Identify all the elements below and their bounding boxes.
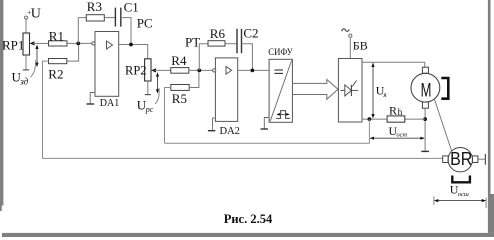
svg-text:DA2: DA2 — [220, 126, 240, 137]
node input DA2 — [197, 69, 201, 73]
svg-text:СИФУ: СИФУ — [268, 47, 293, 57]
svg-text:RP1: RP1 — [2, 37, 24, 52]
wire R2 right to input node — [67, 45, 79, 61]
block BV thyristor converter — [338, 59, 362, 123]
wire R5 left down to current feedback bus — [165, 88, 171, 144]
svg-text:C1: C1 — [124, 0, 139, 14]
svg-text:PC: PC — [137, 15, 153, 30]
ground SIFU — [261, 118, 270, 130]
wire R6 to C2 — [225, 43, 237, 45]
speed feedback bus BR to R2 — [43, 157, 443, 159]
svg-text:Рис. 2.54: Рис. 2.54 — [224, 211, 273, 226]
node Rh left — [368, 117, 372, 121]
wire BV to motor top — [362, 62, 425, 67]
op-amp DA1 — [92, 32, 119, 109]
wire R4 to DA2 input — [189, 69, 213, 71]
Uzd voltage arrow — [35, 45, 38, 67]
node Rh right — [423, 117, 427, 121]
block SIFU — [268, 47, 293, 122]
svg-text:БВ: БВ — [353, 38, 368, 52]
Uzd label — [12, 60, 36, 86]
RP2 wiper arrow — [151, 68, 156, 72]
RP1 open terminal bar — [23, 69, 29, 71]
potentiometer RP1 — [2, 33, 30, 55]
motor M — [411, 67, 440, 108]
BR field bracket — [452, 176, 470, 183]
svg-text:C2: C2 — [243, 25, 258, 40]
wire RP1 wiper to R1 — [33, 42, 49, 44]
feedback wire node to R6 — [199, 44, 208, 71]
ground DA1 — [86, 93, 95, 105]
thyristor symbol — [340, 81, 358, 97]
svg-text:R3: R3 — [87, 0, 102, 14]
resistor R5 — [171, 85, 189, 107]
svg-text:R: R — [389, 103, 397, 117]
wire RP2 wiper to R4 — [155, 69, 171, 71]
RP1 wiper arrow — [30, 41, 35, 45]
svg-text:осш: осш — [458, 191, 469, 198]
RP1 bottom lead — [25, 55, 27, 70]
pulse symbol in SIFU — [276, 111, 290, 119]
svg-text:U: U — [31, 7, 41, 22]
node DA1 output — [129, 43, 133, 47]
potentiometer RP2 — [125, 59, 151, 81]
left page margin bar — [0, 0, 3, 206]
wire motor bottom to Rh node — [424, 108, 426, 151]
ground DA2 — [208, 118, 216, 131]
field winding bracket — [441, 78, 448, 99]
Uosh dimension arrow — [434, 196, 486, 208]
wire AC to BV — [349, 37, 351, 58]
svg-text:BR: BR — [450, 149, 472, 169]
open terminal bar below node — [421, 150, 429, 152]
RP2 open terminal bar — [145, 94, 151, 96]
Uost label — [389, 124, 408, 139]
current feedback wire to R5 — [165, 119, 370, 143]
Uya label — [376, 84, 387, 99]
capacitor C1 — [115, 0, 138, 27]
svg-text:зд: зд — [19, 76, 28, 86]
wire R5 right to input node — [189, 72, 199, 87]
wire Rh to BV — [362, 118, 387, 120]
resistor R6 — [208, 26, 225, 46]
Urс voltage arrow — [156, 72, 159, 93]
resistor R4 — [171, 53, 189, 73]
capacitor C2 — [237, 25, 259, 53]
svg-text:R1: R1 — [49, 28, 64, 43]
svg-text:рс: рс — [145, 105, 154, 114]
wire C1 down to DA1 output — [121, 18, 131, 45]
svg-text:PT: PT — [185, 34, 200, 49]
resistor R3 — [86, 0, 104, 21]
Uosh label — [450, 182, 469, 197]
svg-text:R4: R4 — [171, 53, 187, 68]
resistor R2 — [48, 59, 67, 82]
AC supply terminal — [342, 29, 352, 37]
+U supply terminal — [25, 7, 41, 22]
svg-text:R2: R2 — [48, 67, 63, 82]
feedback wire node to R3 — [78, 18, 86, 44]
wire C2 down to DA2 output — [242, 44, 253, 71]
node DA2 output — [251, 69, 255, 73]
tachogenerator BR — [443, 148, 478, 172]
RP2 bottom lead — [147, 81, 149, 94]
wire R3 to C1 — [104, 17, 115, 19]
Uya voltage arrow — [371, 63, 374, 119]
svg-text:h: h — [398, 108, 403, 118]
wire DA1 output to RP2 — [119, 45, 148, 59]
wire R2 left down to speed feedback bus — [43, 61, 49, 158]
wire DA2 output to SIFU — [238, 69, 269, 71]
svg-text:M: M — [421, 79, 432, 101]
wire node to Rh — [405, 118, 425, 120]
resistor R1 — [49, 28, 68, 46]
big control arrow SIFU to BV — [292, 80, 338, 100]
op-amp DA2 — [213, 58, 240, 137]
bottom page margin bar — [2, 233, 494, 237]
node input DA1 — [76, 42, 80, 46]
right page margin bar — [488, 0, 491, 194]
wire R1 to DA1 input — [67, 42, 92, 44]
shunt resistor Rh — [387, 103, 405, 122]
motor shaft to tachogenerator — [435, 100, 452, 152]
Urс label — [137, 88, 159, 114]
wire +U to RP1 — [25, 19, 27, 33]
svg-text:DA1: DA1 — [100, 98, 119, 109]
svg-text:R6: R6 — [210, 26, 226, 41]
Uost dimension arrow — [370, 137, 425, 140]
svg-text:R5: R5 — [172, 91, 187, 106]
svg-text:я: я — [382, 91, 386, 99]
svg-text:ост: ост — [396, 132, 407, 139]
svg-text:RP2: RP2 — [125, 64, 147, 78]
BR right terminal — [478, 154, 486, 165]
